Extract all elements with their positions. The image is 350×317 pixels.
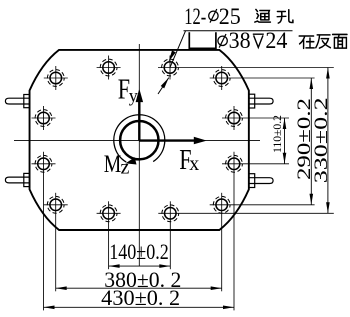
svg-text:z: z (121, 157, 130, 179)
svg-text:38: 38 (229, 28, 251, 53)
svg-text:M: M (104, 151, 122, 178)
svg-text:430±0. 2: 430±0. 2 (101, 285, 180, 310)
svg-text:12-: 12- (184, 4, 206, 29)
svg-text:330±0.2: 330±0.2 (311, 97, 332, 183)
svg-text:140±0.2: 140±0.2 (109, 239, 169, 264)
svg-text:24: 24 (265, 28, 287, 53)
svg-text:y: y (129, 86, 138, 106)
svg-text:x: x (189, 153, 199, 175)
svg-text:110±0.2: 110±0.2 (272, 115, 284, 153)
svg-text:25: 25 (219, 4, 241, 29)
